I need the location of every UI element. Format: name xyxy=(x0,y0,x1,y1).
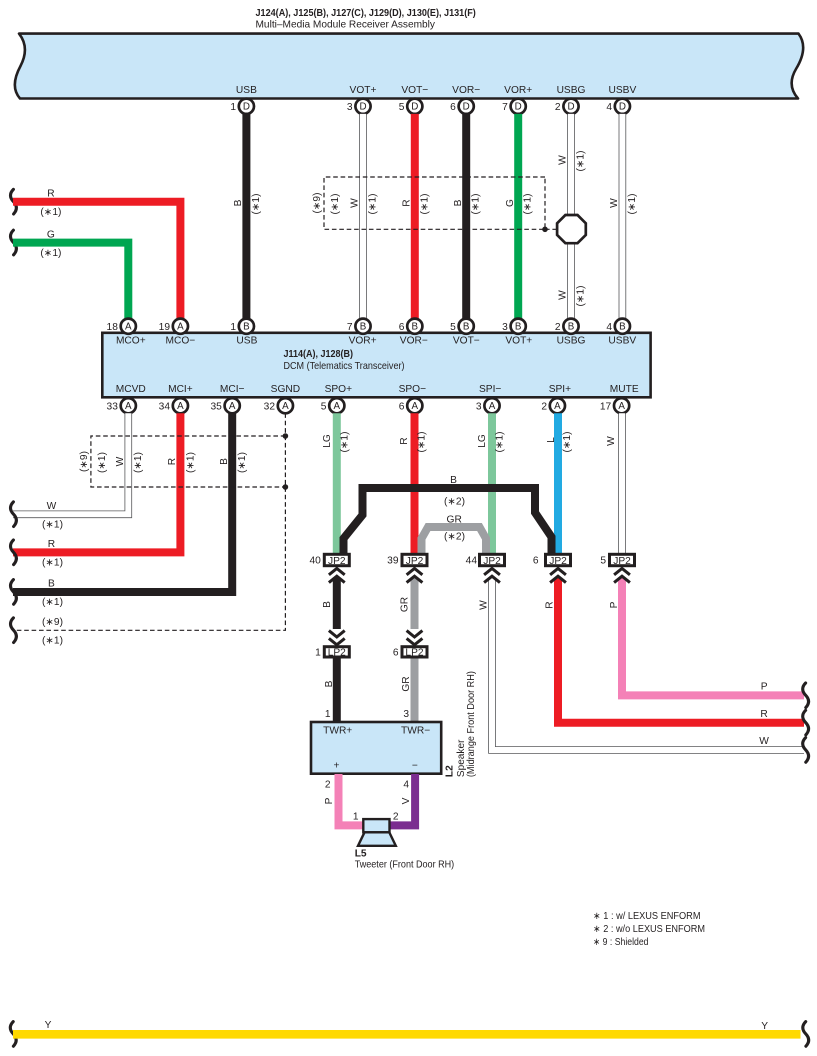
svg-text:L2: L2 xyxy=(445,765,456,777)
svg-text:Y: Y xyxy=(761,1021,768,1032)
pin 7D circle xyxy=(502,99,526,114)
svg-text:2: 2 xyxy=(555,322,561,333)
pin 19A circle xyxy=(159,319,188,334)
tear mark (Y wire left) xyxy=(10,1022,16,1047)
svg-text:5: 5 xyxy=(600,556,606,567)
tear mark (R wire right) xyxy=(803,710,809,735)
svg-text:JP2: JP2 xyxy=(328,556,346,567)
component box Multi-Media Module Receiver Assembly (torn band) xyxy=(15,34,803,99)
svg-text:MCVD: MCVD xyxy=(116,384,146,395)
svg-text:34: 34 xyxy=(159,401,171,412)
svg-text:LG: LG xyxy=(322,434,333,448)
svg-text:∗ 2 : w/o LEXUS ENFORM: ∗ 2 : w/o LEXUS ENFORM xyxy=(593,924,705,935)
pin 6A circle xyxy=(399,398,423,413)
pin 4B circle xyxy=(606,319,630,334)
svg-text:R: R xyxy=(399,437,410,444)
connector JP2 pin 40 xyxy=(309,554,349,567)
svg-text:5: 5 xyxy=(321,401,327,412)
tweeter L5 symbol cone xyxy=(358,832,396,846)
pin 2A circle xyxy=(541,398,565,413)
svg-text:(∗1): (∗1) xyxy=(340,432,351,453)
tear mark (Y wire right) xyxy=(803,1022,809,1047)
wire G (left, to pin 18A) xyxy=(13,243,128,319)
wire Y (bottom bus bar) xyxy=(13,1030,801,1039)
chevrons below JP2 39 xyxy=(407,568,423,582)
svg-text:L5: L5 xyxy=(355,849,367,860)
pin 34A circle xyxy=(159,398,188,413)
svg-text:R: R xyxy=(760,709,767,720)
wire MCI- B (pin 35A to left tear) xyxy=(13,413,232,592)
wire SPO- R (pin 6A to JP2 39) xyxy=(411,413,419,555)
wire MUTE W (pin 17A to JP2 5) xyxy=(618,413,626,555)
pin 3B circle xyxy=(502,319,526,334)
svg-text:4: 4 xyxy=(606,322,612,333)
svg-text:G: G xyxy=(47,229,55,240)
svg-text:VOR−: VOR− xyxy=(400,335,428,346)
wire P (speaker + to tweeter 1) xyxy=(339,774,365,825)
wire VOR+ G xyxy=(514,114,522,319)
svg-text:W: W xyxy=(350,198,361,208)
pin 1D circle xyxy=(230,99,254,114)
svg-text:A: A xyxy=(618,401,625,412)
svg-text:USBV: USBV xyxy=(609,85,637,96)
svg-text:L: L xyxy=(546,437,557,443)
svg-text:USB: USB xyxy=(236,335,257,346)
svg-text:R: R xyxy=(402,199,413,206)
shield dashed box (top) xyxy=(324,177,545,229)
connector JP2 pin 5 xyxy=(600,554,634,567)
wire R (JP2 6 to right tear) xyxy=(558,578,804,723)
component box DCM (Telematics Transceiver) xyxy=(102,333,650,398)
tear mark (G wire left) xyxy=(10,230,16,255)
svg-text:MCI+: MCI+ xyxy=(168,384,193,395)
wire B (LP2 1 to TWR+) xyxy=(333,659,341,723)
chevrons above LP2 1 xyxy=(329,631,345,645)
svg-text:B: B xyxy=(324,680,335,687)
chevrons below JP2 40 xyxy=(329,568,345,582)
noise filter octagon xyxy=(557,215,586,243)
wire SPI- LG (pin 3A to JP2 44) xyxy=(488,413,496,555)
svg-text:3: 3 xyxy=(476,401,482,412)
svg-text:B: B xyxy=(568,322,575,333)
svg-text:VOT−: VOT− xyxy=(453,335,480,346)
wire V (speaker - to tweeter 2) xyxy=(391,774,416,825)
svg-text:(∗1): (∗1) xyxy=(368,194,379,215)
svg-text:J114(A), J128(B): J114(A), J128(B) xyxy=(284,349,354,360)
svg-text:2: 2 xyxy=(555,102,561,113)
svg-text:4: 4 xyxy=(606,102,612,113)
chevrons below JP2 6 xyxy=(550,568,566,582)
svg-text:(∗9): (∗9) xyxy=(312,193,323,214)
svg-text:B: B xyxy=(619,322,626,333)
svg-text:18: 18 xyxy=(107,322,119,333)
wire MCVD W (pin 33A to left tear) xyxy=(13,413,128,514)
svg-text:33: 33 xyxy=(107,401,119,412)
shield wire SGND dashed (pin 32A to left tear) xyxy=(13,413,285,630)
svg-text:3: 3 xyxy=(347,102,353,113)
svg-text:6: 6 xyxy=(393,647,399,658)
pin 3D circle xyxy=(347,99,371,114)
svg-text:B: B xyxy=(412,322,419,333)
svg-text:W: W xyxy=(606,436,617,446)
wire SPO+ LG (pin 5A to JP2 40) xyxy=(333,413,341,555)
svg-text:W: W xyxy=(558,155,569,165)
svg-text:D: D xyxy=(463,102,470,113)
svg-text:∗ 1 : w/ LEXUS ENFORM: ∗ 1 : w/ LEXUS ENFORM xyxy=(593,911,701,922)
svg-text:VOT+: VOT+ xyxy=(350,85,377,96)
svg-text:P: P xyxy=(324,797,335,804)
pin 35A circle xyxy=(210,398,239,413)
svg-text:(∗1): (∗1) xyxy=(40,207,61,218)
svg-text:(∗9): (∗9) xyxy=(79,451,90,472)
svg-text:5: 5 xyxy=(399,102,405,113)
svg-text:(∗2): (∗2) xyxy=(444,532,465,543)
svg-text:D: D xyxy=(243,102,250,113)
pin 1B circle xyxy=(230,319,254,334)
wire R (left, to pin 19A) xyxy=(13,202,180,319)
wire SPI+ L (pin 2A to JP2 6) xyxy=(554,413,562,555)
component box L2 Speaker xyxy=(311,722,441,774)
svg-text:A: A xyxy=(177,322,184,333)
svg-text:B: B xyxy=(219,458,230,465)
svg-text:+: + xyxy=(334,761,340,772)
svg-text:Multi–Media Module Receiver As: Multi–Media Module Receiver Assembly xyxy=(256,20,436,31)
svg-text:B: B xyxy=(233,199,244,206)
svg-text:SPI−: SPI− xyxy=(479,384,501,395)
svg-text:(∗1): (∗1) xyxy=(523,194,534,215)
pin 5D circle xyxy=(399,99,423,114)
connector JP2 pin 44 xyxy=(466,554,505,567)
svg-text:(∗1): (∗1) xyxy=(185,452,196,473)
tear mark (P wire right) xyxy=(803,683,809,708)
svg-text:(∗1): (∗1) xyxy=(42,636,63,647)
connector LP2 pin 1 xyxy=(315,647,349,659)
svg-text:1: 1 xyxy=(230,322,236,333)
svg-text:(∗1): (∗1) xyxy=(97,452,108,473)
svg-text:(∗1): (∗1) xyxy=(42,558,63,569)
wire GR (JP2 39 to LP2 6) xyxy=(411,578,419,629)
svg-text:R: R xyxy=(545,601,556,608)
svg-text:MCO+: MCO+ xyxy=(116,335,146,346)
wire USBG W xyxy=(567,114,575,319)
svg-text:(∗1): (∗1) xyxy=(133,452,144,473)
pin 18A circle xyxy=(107,319,136,334)
tear mark (B wire left) xyxy=(10,580,16,605)
pin 2B circle xyxy=(555,319,579,334)
wire VOR- B xyxy=(462,114,470,319)
svg-text:LP2: LP2 xyxy=(328,648,346,659)
svg-text:B: B xyxy=(463,322,470,333)
svg-text:SPO+: SPO+ xyxy=(325,384,353,395)
svg-text:W: W xyxy=(558,290,569,300)
wire MCI+ R (pin 34A to left tear) xyxy=(13,413,180,552)
svg-text:B: B xyxy=(243,322,250,333)
svg-text:USBG: USBG xyxy=(557,335,586,346)
svg-text:GR: GR xyxy=(401,676,412,691)
pin 5B circle xyxy=(450,319,474,334)
tear mark (R wire left) xyxy=(10,189,16,214)
svg-text:D: D xyxy=(359,102,366,113)
svg-text:−: − xyxy=(412,761,418,772)
svg-text:W: W xyxy=(609,198,620,208)
svg-text:39: 39 xyxy=(387,556,399,567)
svg-text:B: B xyxy=(450,475,457,486)
svg-text:A: A xyxy=(282,401,289,412)
svg-text:MUTE: MUTE xyxy=(610,384,639,395)
svg-text:USBV: USBV xyxy=(608,335,636,346)
svg-text:(∗1): (∗1) xyxy=(42,520,63,531)
svg-text:(∗1): (∗1) xyxy=(251,194,262,215)
svg-text:3: 3 xyxy=(403,709,409,720)
svg-text:W: W xyxy=(47,501,57,512)
svg-text:P: P xyxy=(761,682,768,693)
chevrons below JP2 5 xyxy=(614,568,630,582)
svg-text:(∗1): (∗1) xyxy=(495,432,506,453)
svg-text:1: 1 xyxy=(315,647,321,658)
svg-text:2: 2 xyxy=(393,811,399,822)
svg-text:B: B xyxy=(515,322,522,333)
wire USBV W xyxy=(619,114,627,319)
svg-text:1: 1 xyxy=(353,811,359,822)
svg-text:D: D xyxy=(619,102,626,113)
svg-text:(∗1): (∗1) xyxy=(237,452,248,473)
svg-text:∗ 9 : Shielded: ∗ 9 : Shielded xyxy=(593,937,649,948)
svg-text:JP2: JP2 xyxy=(483,556,501,567)
svg-text:GR: GR xyxy=(399,597,410,612)
svg-text:TWR−: TWR− xyxy=(401,725,430,736)
svg-text:R: R xyxy=(48,539,55,550)
svg-text:G: G xyxy=(505,199,516,207)
svg-text:VOR+: VOR+ xyxy=(504,85,532,96)
svg-text:A: A xyxy=(412,401,419,412)
junction dot (shield to octagon) xyxy=(542,227,548,233)
svg-text:MCO−: MCO− xyxy=(166,335,196,346)
svg-text:7: 7 xyxy=(502,102,508,113)
tear mark (shield wire left) xyxy=(10,618,16,643)
chevrons below JP2 44 xyxy=(484,568,500,582)
svg-text:USB: USB xyxy=(236,85,257,96)
svg-text:(Midrange Front Door RH): (Midrange Front Door RH) xyxy=(466,671,477,777)
svg-text:A: A xyxy=(125,322,132,333)
svg-text:(∗2): (∗2) xyxy=(444,497,465,508)
pin 33A circle xyxy=(107,398,136,413)
svg-text:40: 40 xyxy=(309,556,321,567)
connector JP2 pin 39 xyxy=(387,554,427,567)
dashed stub dot to octagon xyxy=(545,228,557,230)
svg-text:TWR+: TWR+ xyxy=(323,725,352,736)
pin 17A circle xyxy=(600,398,629,413)
svg-text:J124(A), J125(B), J127(C), J12: J124(A), J125(B), J127(C), J129(D), J130… xyxy=(256,8,476,19)
svg-text:(∗1): (∗1) xyxy=(471,194,482,215)
svg-text:USBG: USBG xyxy=(557,85,586,96)
svg-text:A: A xyxy=(334,401,341,412)
wire VOT- R xyxy=(411,114,419,319)
svg-text:JP2: JP2 xyxy=(613,556,631,567)
pin 3A circle xyxy=(476,398,500,413)
pin 6D circle xyxy=(450,99,474,114)
shield dashed box (bottom) xyxy=(91,436,286,487)
svg-text:(∗1): (∗1) xyxy=(562,432,573,453)
connector JP2 pin 6 xyxy=(533,554,571,567)
svg-text:6: 6 xyxy=(450,102,456,113)
svg-text:W: W xyxy=(759,736,769,747)
svg-text:Tweeter (Front Door RH): Tweeter (Front Door RH) xyxy=(355,860,455,871)
svg-text:6: 6 xyxy=(399,322,405,333)
svg-text:(∗1): (∗1) xyxy=(575,151,586,172)
svg-text:(∗1): (∗1) xyxy=(416,432,427,453)
junction dot (shield box bottom right) xyxy=(283,484,289,490)
tweeter L5 symbol top box xyxy=(363,819,389,832)
svg-text:2: 2 xyxy=(541,401,547,412)
svg-text:(∗1): (∗1) xyxy=(40,248,61,259)
svg-text:LP2: LP2 xyxy=(405,648,423,659)
pin 7B circle xyxy=(347,319,371,334)
svg-text:V: V xyxy=(401,797,412,804)
svg-text:LG: LG xyxy=(477,434,488,448)
svg-text:32: 32 xyxy=(264,401,276,412)
svg-text:17: 17 xyxy=(600,401,612,412)
svg-text:D: D xyxy=(567,102,574,113)
svg-text:6: 6 xyxy=(399,401,405,412)
svg-text:VOT+: VOT+ xyxy=(505,335,532,346)
svg-text:VOR+: VOR+ xyxy=(349,335,377,346)
svg-text:3: 3 xyxy=(502,322,508,333)
svg-text:7: 7 xyxy=(347,322,353,333)
connector LP2 pin 6 xyxy=(393,647,427,659)
svg-text:1: 1 xyxy=(325,709,331,720)
wire VOT+ W (band to DCM) xyxy=(359,114,367,319)
junction dot (shield box top right) xyxy=(283,433,289,439)
svg-text:W: W xyxy=(115,456,126,466)
svg-text:35: 35 xyxy=(210,401,222,412)
tear mark (W wire right) xyxy=(803,738,809,763)
svg-text:(∗1): (∗1) xyxy=(419,194,430,215)
svg-text:(∗1): (∗1) xyxy=(330,194,341,215)
svg-text:Y: Y xyxy=(45,1020,52,1031)
pin 6B circle xyxy=(399,319,423,334)
svg-text:(∗1): (∗1) xyxy=(575,286,586,307)
svg-text:JP2: JP2 xyxy=(406,556,424,567)
svg-text:VOR−: VOR− xyxy=(452,85,480,96)
svg-text:4: 4 xyxy=(403,779,409,790)
wire GR (LP2 6 to TWR-) xyxy=(411,659,419,723)
svg-text:1: 1 xyxy=(230,102,236,113)
wire W (JP2 44 to right tear) xyxy=(492,578,804,750)
svg-text:19: 19 xyxy=(159,322,171,333)
tear mark (W wire left) xyxy=(10,502,16,527)
svg-text:(∗1): (∗1) xyxy=(42,597,63,608)
pin 5A circle xyxy=(321,398,345,413)
pin 2D circle xyxy=(555,99,579,114)
svg-text:SGND: SGND xyxy=(271,384,300,395)
svg-text:A: A xyxy=(177,401,184,412)
chevrons above LP2 6 xyxy=(407,631,423,645)
svg-text:GR: GR xyxy=(447,515,462,526)
svg-text:A: A xyxy=(229,401,236,412)
svg-text:2: 2 xyxy=(325,779,331,790)
svg-text:5: 5 xyxy=(450,322,456,333)
svg-text:B: B xyxy=(322,601,333,608)
svg-text:44: 44 xyxy=(466,556,478,567)
pin 32A circle xyxy=(264,398,293,413)
wire B (*2) jumper (JP2 40 to JP2 6) xyxy=(344,488,552,556)
svg-text:VOT−: VOT− xyxy=(401,85,428,96)
svg-text:A: A xyxy=(554,401,561,412)
svg-text:SPO−: SPO− xyxy=(399,384,427,395)
svg-text:MCI−: MCI− xyxy=(220,384,245,395)
svg-text:SPI+: SPI+ xyxy=(549,384,571,395)
svg-text:JP2: JP2 xyxy=(549,556,567,567)
svg-text:P: P xyxy=(609,601,620,608)
svg-text:B: B xyxy=(360,322,367,333)
wire P (JP2 5 to right tear) xyxy=(622,578,804,696)
svg-text:D: D xyxy=(411,102,418,113)
svg-text:R: R xyxy=(47,189,54,200)
svg-text:DCM (Telematics Transceiver): DCM (Telematics Transceiver) xyxy=(284,361,405,372)
wire B (JP2 40 to LP2 1) xyxy=(333,578,341,629)
tear mark (R wire left bottom) xyxy=(10,540,16,565)
svg-text:A: A xyxy=(125,401,132,412)
svg-text:R: R xyxy=(167,458,178,465)
pin 4D circle xyxy=(606,99,630,114)
svg-text:W: W xyxy=(479,600,490,610)
svg-text:B: B xyxy=(453,199,464,206)
svg-text:B: B xyxy=(48,579,55,590)
svg-text:A: A xyxy=(489,401,496,412)
svg-text:(∗1): (∗1) xyxy=(627,194,638,215)
wire GR (*2) jumper (JP2 39 to JP2 44) xyxy=(422,527,487,556)
wire USB B (band to DCM) xyxy=(242,114,250,319)
svg-text:(∗9): (∗9) xyxy=(42,617,63,628)
svg-text:6: 6 xyxy=(533,556,539,567)
svg-text:D: D xyxy=(515,102,522,113)
